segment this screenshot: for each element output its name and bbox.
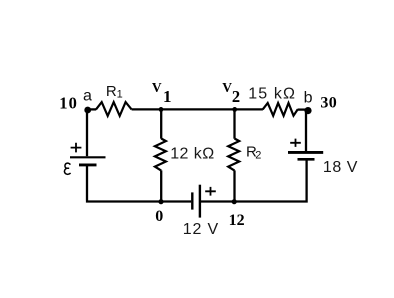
svg-text:10: 10 [59,93,78,112]
svg-text:12 V: 12 V [183,221,219,238]
battery 12V plus sign [205,187,216,196]
svg-text:V: V [222,80,232,95]
wire 12k resistor down to node 0 [160,170,162,201]
svg-text:18 V: 18 V [323,159,358,176]
svg-text:a: a [83,88,92,105]
node b junction [304,107,311,114]
wire a down to battery EMF [86,109,88,156]
wire battery EMF to bottom-left corner [86,166,191,202]
wire 12V battery to node 12 to bottom-right corner [201,160,307,203]
wire R2 down to node 12 [233,170,235,201]
battery 18V short plate [298,158,315,161]
wire V1 down to 12k resistor [160,109,162,138]
svg-text:V: V [152,80,162,95]
wire 15k to node b [298,108,309,110]
battery 12V short plate [191,192,193,209]
battery 12V long plate [199,185,201,218]
wire node a to R1 [87,108,96,110]
wire V2 to 15k resistor [235,108,263,110]
battery EMF long plate [70,156,106,158]
wire node b down to 18V battery [305,111,307,151]
resistor 12 kOhm [155,139,166,171]
svg-text:2: 2 [255,149,261,161]
svg-text:2: 2 [232,87,240,106]
resistor R1 [96,102,132,116]
node 12 junction [232,199,237,204]
resistor R2 [228,139,239,171]
node 0 junction [158,199,163,204]
wire R1 to V1 to V2 [132,108,235,110]
battery EMF plus sign [71,143,82,153]
node a junction [84,107,91,114]
svg-text:12 kΩ: 12 kΩ [170,145,214,162]
svg-text:12: 12 [229,212,245,229]
svg-text:1: 1 [117,89,123,101]
svg-text:15 kΩ: 15 kΩ [248,85,296,102]
svg-text:30: 30 [320,95,337,112]
svg-text:0: 0 [155,208,163,225]
battery 18V long plate [288,151,323,154]
resistor 15 kOhm [263,103,298,116]
svg-text:b: b [304,89,313,106]
svg-text:R: R [106,83,117,100]
label EMF epsilon [64,163,70,174]
node V1 junction [159,107,164,112]
node V2 junction [232,107,237,112]
battery EMF short plate [79,163,97,166]
svg-text:1: 1 [163,87,172,106]
battery 18V plus sign [290,139,301,147]
wire V2 down to R2 [233,109,235,138]
